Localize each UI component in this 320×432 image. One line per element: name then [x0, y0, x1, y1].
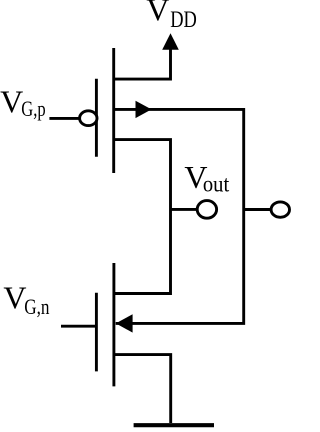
svg-text:V: V — [146, 0, 169, 28]
svg-text:V: V — [3, 280, 26, 316]
svg-text:G,n: G,n — [24, 294, 49, 319]
svg-text:V: V — [0, 84, 23, 120]
svg-text:out: out — [203, 171, 230, 196]
svg-text:DD: DD — [170, 7, 197, 32]
svg-text:G,p: G,p — [21, 96, 45, 121]
